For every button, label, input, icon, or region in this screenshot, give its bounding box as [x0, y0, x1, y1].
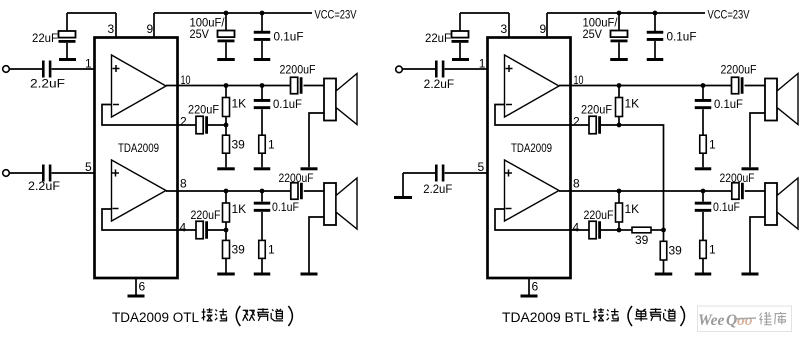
svg-text:Q: Q [726, 312, 737, 329]
svg-text:oo: oo [737, 312, 753, 329]
svg-text:Wee: Wee [698, 312, 725, 329]
